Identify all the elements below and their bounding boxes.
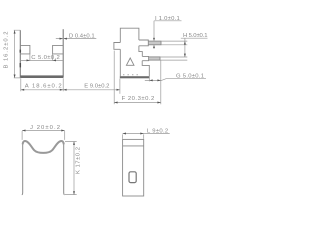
dimension A extension lines (21, 78, 63, 91)
dimension C extension ticks (30, 54, 53, 61)
svg-text:J 20±0.2: J 20±0.2 (30, 125, 60, 131)
front view left wall (19, 30, 21, 77)
wave view left edge (21, 143, 24, 195)
side view pin 1 base (139, 40, 148, 46)
dimension G extension lines (149, 61, 161, 105)
dimension F arrows (114, 102, 161, 104)
dimension K extension ticks (65, 142, 77, 195)
svg-text:A 18.6±0.2: A 18.6±0.2 (25, 83, 62, 89)
front view left notch (20, 45, 30, 54)
dimension K arrows (73, 142, 75, 195)
side view triangle mark (126, 58, 134, 65)
dimension B line (14, 30, 16, 78)
svg-text:D 0.4±0.1: D 0.4±0.1 (69, 34, 95, 40)
svg-text:F 20.3±0.2: F 20.3±0.2 (122, 96, 155, 102)
front view left wall dark marks (19, 50, 21, 68)
bottom right view cap line (123, 145, 144, 147)
svg-text:H 5.0±0.1: H 5.0±0.1 (183, 33, 208, 39)
front view right notch (53, 45, 64, 54)
front view bottom base (20, 75, 63, 78)
dimension D line (56, 38, 97, 40)
dimension H extension lines (161, 41, 188, 60)
dimension H leader (181, 37, 208, 39)
wave view top curve (23, 141, 64, 153)
dimension E arrows (63, 89, 120, 91)
dimension C line (20, 59, 63, 61)
dimension J extension lines (22, 131, 65, 140)
front view right wall (62, 29, 64, 77)
side view bottom base (120, 76, 150, 78)
dimension L arrows (123, 133, 144, 135)
svg-text:L 9±0.2: L 9±0.2 (147, 128, 168, 134)
dimension K line (73, 142, 75, 195)
svg-text:G 5.0±0.1: G 5.0±0.1 (176, 73, 204, 79)
side view pin 2 (149, 57, 160, 60)
dimension B extension ticks (14, 30, 20, 78)
dimension E line (63, 89, 120, 91)
wave view right edge (63, 143, 66, 195)
side view body outline (120, 28, 149, 76)
dimension G arrows (149, 79, 161, 81)
dimension L line (123, 133, 170, 135)
dimension A line (21, 89, 63, 91)
side view left bump (114, 43, 120, 50)
dimension F line (114, 102, 161, 104)
dimension H arrows (184, 41, 186, 57)
svg-text:B 16.2±0.2: B 16.2±0.2 (4, 32, 10, 69)
dimension A arrows (21, 89, 63, 91)
svg-text:C 5.0±0.2: C 5.0±0.2 (31, 55, 60, 61)
dimension I arrows (153, 38, 155, 49)
side view bottom serrations (123, 74, 138, 76)
dimension C arrows (27, 59, 57, 61)
dimension I leader (154, 21, 182, 38)
dimension J arrows (22, 130, 65, 132)
dimension E extension line (119, 79, 121, 94)
dimension J line (22, 130, 65, 132)
dimension L extension lines (123, 134, 144, 139)
dimension G line (145, 79, 206, 81)
side view pin 2 base (142, 56, 148, 60)
bottom right view hole (129, 172, 136, 183)
svg-text:E 9.0±0.2: E 9.0±0.2 (84, 84, 109, 90)
side view pin 1 (148, 41, 161, 45)
dimension H line (184, 38, 186, 57)
dimension F extension line left (113, 51, 115, 105)
bottom right view outline (123, 139, 144, 196)
dimension B arrows (14, 30, 16, 78)
svg-text:K 17±0.2: K 17±0.2 (75, 147, 81, 174)
dimension D arrows (60, 38, 67, 40)
svg-text:I 1.0±0.1: I 1.0±0.1 (155, 16, 180, 22)
